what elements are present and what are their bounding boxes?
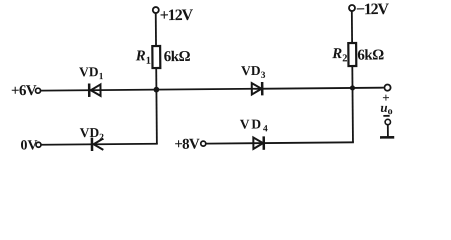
wire lower-right +8V line <box>206 142 354 143</box>
terminal +12V <box>153 7 159 13</box>
svg-text:VD1: VD1 <box>79 64 104 82</box>
svg-text:R2: R2 <box>331 46 347 65</box>
ground <box>380 125 394 138</box>
wire -12V branch vertical <box>352 11 353 142</box>
resistor R1 <box>152 46 160 68</box>
terminal output uo <box>384 84 390 90</box>
terminal output lower <box>385 119 390 124</box>
svg-text:+8V: +8V <box>174 137 200 153</box>
wire main horizontal bus <box>41 88 384 91</box>
svg-text:0V: 0V <box>20 138 37 153</box>
svg-text:VD4: VD4 <box>240 116 268 134</box>
terminal -12V <box>349 5 355 11</box>
svg-text:+12V: +12V <box>160 7 194 24</box>
diode VD3 <box>252 82 263 95</box>
diode VD1 <box>89 83 100 96</box>
terminal 0V <box>36 142 41 147</box>
wire +12V branch vertical <box>156 13 157 143</box>
svg-text:VD3: VD3 <box>241 63 266 81</box>
svg-text:−12V: −12V <box>356 1 390 18</box>
terminal +6V <box>35 88 40 93</box>
terminal +8V <box>201 141 206 146</box>
svg-text:6kΩ: 6kΩ <box>357 47 384 63</box>
svg-text:R1: R1 <box>135 48 151 67</box>
wire lower-left 0V line <box>41 144 157 145</box>
svg-text:+6V: +6V <box>11 83 37 99</box>
label minus sign <box>383 115 389 117</box>
node B junction under R2 <box>350 85 355 90</box>
resistor R2 <box>348 43 356 66</box>
diode VD2 <box>92 138 103 151</box>
diode VD4 <box>253 136 264 149</box>
svg-text:6kΩ: 6kΩ <box>164 49 191 65</box>
svg-text:uo: uo <box>380 100 392 117</box>
node A junction under R1 <box>153 87 159 93</box>
